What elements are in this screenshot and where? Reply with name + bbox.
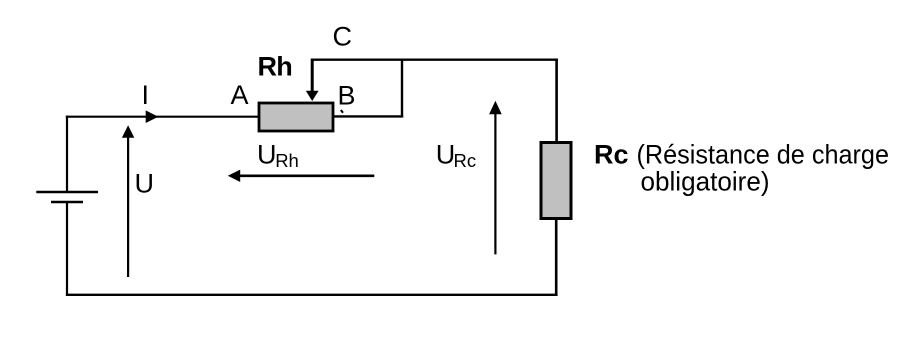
wire mid vertical (B up to top wire) xyxy=(401,59,403,118)
stray tick mark below B xyxy=(341,110,343,113)
wire right vertical lower (Rc to bottom wire) xyxy=(555,219,558,296)
battery short plate (-) xyxy=(51,201,83,204)
resistor Rc body xyxy=(541,143,571,219)
current arrow I on top wire xyxy=(146,110,159,123)
voltage arrow U (up) xyxy=(127,134,129,277)
voltage arrow U_Rc (up) xyxy=(494,111,496,254)
wiper arrow into rheostat (cursor) xyxy=(311,59,314,94)
svg-text:A: A xyxy=(231,80,249,110)
svg-text:Rh: Rh xyxy=(258,52,292,82)
wire right vertical upper (top wire down to Rc) xyxy=(555,59,558,142)
voltage arrow U_Rh (left) xyxy=(238,175,374,178)
wire top-left horizontal (battery + to rheostat A) xyxy=(66,116,259,118)
svg-text:B: B xyxy=(338,80,356,110)
wire left vertical lower (battery to bottom wire) xyxy=(66,202,68,296)
rheostat Rh body xyxy=(259,103,333,131)
wire top horizontal (C wire) xyxy=(311,59,558,61)
wire bottom horizontal xyxy=(66,294,558,296)
svg-text:I: I xyxy=(142,80,150,110)
svg-text:C: C xyxy=(333,22,353,52)
wire left vertical upper (battery to top wire) xyxy=(66,116,68,192)
svg-text:U: U xyxy=(135,169,155,199)
svg-text:obligatoire): obligatoire) xyxy=(641,166,770,196)
wire B terminal to mid vertical xyxy=(334,115,403,117)
svg-text:(Résistance de charge: (Résistance de charge xyxy=(637,139,890,169)
battery long plate (+) xyxy=(36,191,98,194)
svg-text:Rc: Rc xyxy=(594,139,629,169)
